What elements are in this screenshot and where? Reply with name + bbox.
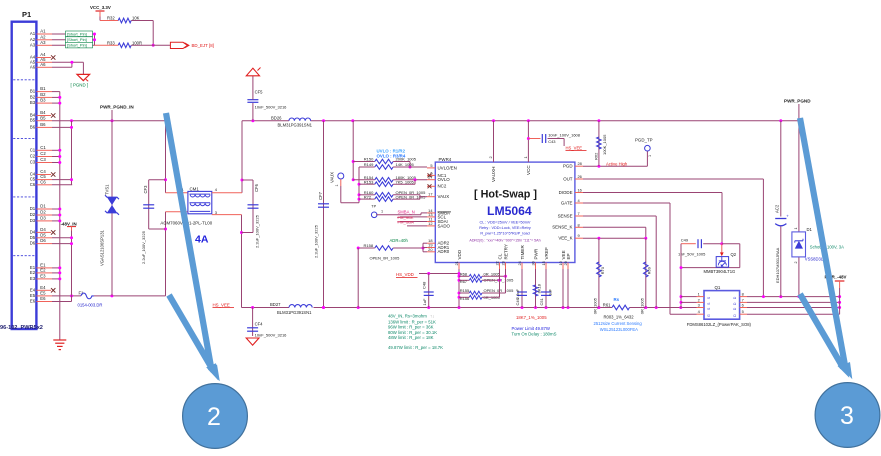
svg-text:0R_1005: 0R_1005	[639, 297, 644, 314]
svg-text:3: 3	[840, 402, 854, 430]
svg-text:E3: E3	[30, 276, 36, 281]
svg-text:LM5064: LM5064	[487, 204, 532, 218]
Q1 pin 6 stub	[740, 303, 747, 308]
LM5064 pin 11 SDAI	[427, 217, 448, 224]
test point SMBA	[371, 210, 427, 218]
net label PWR_PGND	[784, 99, 811, 121]
svg-text:TIMER: TIMER	[520, 245, 525, 260]
P1 pin D3	[30, 216, 60, 223]
resistor R155	[459, 288, 514, 295]
P1 pin A2	[30, 34, 95, 41]
capacitor C51 on VREF	[539, 269, 553, 308]
svg-text:C3: C3	[40, 157, 46, 162]
svg-text:TP: TP	[371, 204, 376, 208]
P1 pin B3	[30, 98, 60, 105]
svg-text:EDH107M301JRAA: EDH107M301JRAA	[775, 247, 780, 283]
svg-text:Q1: Q1	[715, 285, 721, 290]
svg-text:TVS1: TVS1	[104, 184, 109, 195]
svg-text:C1: C1	[40, 145, 46, 150]
svg-text:A2: A2	[40, 34, 46, 39]
svg-text:CF5: CF5	[255, 90, 264, 95]
svg-text:29: 29	[563, 261, 568, 265]
svg-text:PWR: PWR	[533, 248, 538, 259]
net label -48V_IN	[61, 221, 77, 230]
resistor R32	[107, 16, 155, 47]
svg-text:D6: D6	[40, 238, 46, 243]
Q1 pin 8 stub	[740, 292, 747, 297]
svg-text:1: 1	[794, 228, 798, 230]
P1 pin E2	[30, 268, 60, 275]
LM5064 pin 28 PGD	[563, 161, 583, 168]
LM5064 pin 15 VREF	[541, 247, 549, 269]
svg-text:GATE: GATE	[561, 200, 573, 205]
svg-text:D4: D4	[40, 227, 46, 232]
svg-text:10K: 10K	[132, 16, 140, 21]
capacitor CF5 with power flag	[246, 68, 287, 121]
P1 pin D5	[30, 232, 72, 239]
svg-text:2: 2	[207, 403, 221, 431]
svg-text:E4: E4	[30, 287, 36, 292]
svg-text:1: 1	[648, 155, 652, 157]
ferrite bead BD26	[271, 115, 313, 127]
svg-text:ADR0: ADR0	[438, 249, 450, 254]
svg-text:C49: C49	[681, 238, 689, 243]
svg-text:15: 15	[541, 261, 546, 265]
LM5064 pin 21 VDD	[454, 249, 462, 269]
LM5064 pin 7 SENSE	[558, 211, 583, 218]
svg-text:A3: A3	[40, 40, 46, 45]
svg-text:EP: EP	[566, 253, 571, 259]
svg-text:26: 26	[578, 174, 582, 179]
power flag VCC_3.3V	[90, 5, 118, 20]
svg-text:2.2uF: 2.2uF	[515, 288, 520, 299]
P1 pin E4	[30, 285, 55, 293]
ground PGND symbol	[77, 74, 90, 81]
wire HS_VEE rail	[242, 306, 697, 309]
svg-text:4A: 4A	[195, 234, 209, 246]
P1 pin C2	[30, 151, 60, 158]
svg-text:VEE_K: VEE_K	[558, 236, 572, 241]
svg-text:HS_VDD: HS_VDD	[396, 272, 414, 277]
svg-text:Rs: Rs	[614, 297, 620, 302]
wire EP pin net	[567, 269, 569, 308]
P1 pin B6	[30, 122, 72, 129]
wire A5-A6 join to PGND	[70, 61, 83, 74]
svg-text:OPEN_0R_1005: OPEN_0R_1005	[484, 288, 515, 293]
svg-text:R_pwr=1.25*10^5*Rs/P_load: R_pwr=1.25*10^5*Rs/P_load	[480, 231, 529, 235]
op-amp U? hot-swap controller LM5064 body	[435, 157, 575, 263]
svg-text:HS_VEE: HS_VEE	[566, 146, 583, 151]
svg-text:B2: B2	[30, 94, 36, 99]
wire SCL with PM_SCL label	[397, 215, 427, 220]
svg-text:D2: D2	[40, 210, 46, 215]
LM5064 pin 29 EP	[563, 253, 571, 269]
LM5064 pin 30 PWR	[530, 248, 538, 269]
svg-text:C43: C43	[548, 139, 556, 144]
svg-text:FDMS86102LZ_(PowerPAK_SO8): FDMS86102LZ_(PowerPAK_SO8)	[687, 322, 752, 327]
P1 pin C1	[30, 145, 60, 152]
svg-text:2: 2	[794, 262, 798, 264]
Q1 pin 5 stub	[740, 309, 747, 314]
net label HS_VEE	[213, 302, 235, 307]
resistor R62 pull	[593, 121, 607, 167]
svg-text:RETRY: RETRY	[503, 244, 508, 260]
svg-text:R61: R61	[603, 302, 611, 307]
svg-text:2.2uF_100V_3225: 2.2uF_100V_3225	[141, 230, 146, 264]
wire VEE_K net	[583, 237, 647, 240]
Q1 pin 3 stub	[697, 303, 705, 308]
wire ADR tie	[423, 243, 427, 252]
svg-text:R158: R158	[364, 243, 374, 248]
P1 pin A5	[30, 57, 83, 64]
svg-text:G: G	[707, 314, 711, 317]
svg-text:D: D	[733, 307, 737, 310]
capacitor C49	[678, 238, 723, 257]
Q1 pin 1 stub	[697, 292, 705, 297]
transistor Q1 body	[687, 285, 752, 327]
ferrite bead BD27	[270, 302, 312, 315]
LM5064 pin 22 CL	[494, 253, 502, 269]
short-pin labels on A1-A3	[66, 31, 93, 37]
svg-text:SMBA_N: SMBA_N	[398, 209, 415, 214]
svg-text:B5: B5	[40, 115, 46, 120]
svg-text:CF6: CF6	[254, 183, 259, 192]
svg-text:VAUXH: VAUXH	[491, 167, 496, 183]
capacitor C43	[528, 133, 580, 146]
svg-text:VDD: VDD	[457, 249, 462, 259]
svg-text:48W limit : R_per = 18K: 48W limit : R_per = 18K	[388, 335, 434, 340]
svg-text:R153: R153	[364, 179, 374, 184]
svg-text:9: 9	[578, 233, 580, 238]
svg-text:OVLO: OVLO	[438, 177, 451, 182]
wire SADO stub	[407, 225, 427, 227]
svg-text:P1: P1	[22, 10, 31, 19]
svg-text:10nF_100V_1608: 10nF_100V_1608	[548, 133, 581, 138]
wire CL pin net	[499, 269, 501, 297]
svg-text:BD26: BD26	[271, 115, 282, 120]
wire ladder tie vertical	[358, 167, 375, 203]
svg-text:18K7_1%_1005: 18K7_1%_1005	[516, 315, 547, 320]
svg-text:B5: B5	[30, 118, 36, 123]
capacitor CF7	[314, 121, 330, 309]
resistor R72	[364, 194, 427, 201]
svg-text:D3: D3	[30, 218, 36, 223]
LM5064 pin 23 RETRY	[500, 244, 508, 269]
resistor R150	[364, 157, 417, 169]
wire PGD net	[583, 151, 647, 168]
LM5064 pin 1 VCC	[523, 121, 531, 175]
resistor R153	[364, 179, 415, 186]
svg-text:VGAS12106SP131: VGAS12106SP131	[100, 229, 105, 266]
P1 pin B4	[30, 110, 55, 118]
resistor R68	[459, 272, 507, 279]
svg-text:8: 8	[742, 292, 744, 297]
P1 pin A4 (NC)	[30, 52, 55, 60]
svg-text:2: 2	[488, 156, 493, 158]
P1 pin A3	[30, 40, 95, 47]
svg-text:PWR_PGND_IN: PWR_PGND_IN	[100, 105, 134, 110]
svg-text:1: 1	[381, 210, 383, 214]
wire CM1 pin4 node	[212, 121, 253, 193]
svg-text:48V_IN, Rs=3mohm: 48V_IN, Rs=3mohm	[388, 313, 427, 318]
svg-text:OUT: OUT	[563, 176, 573, 181]
P1 pin C5	[30, 174, 72, 181]
Q1 pin 4 stub	[697, 309, 705, 314]
wire RETRY pin net	[505, 269, 507, 293]
svg-text:PGD: PGD	[563, 164, 573, 169]
wire VEE pin net	[562, 269, 564, 308]
svg-text:14K_1005: 14K_1005	[396, 162, 415, 167]
svg-text:PWR_PGND: PWR_PGND	[784, 99, 811, 104]
LM5064 pin 16 DIODE	[559, 188, 583, 195]
svg-text:AC2: AC2	[774, 204, 779, 213]
svg-text:D1: D1	[807, 227, 813, 232]
P1 pin E1	[30, 263, 60, 270]
LM5064 pin 5 UVLO/EN	[427, 163, 457, 170]
svg-text:3: 3	[698, 303, 700, 308]
svg-text:21: 21	[454, 261, 459, 265]
LM5064 pin 26 OUT	[563, 174, 583, 181]
ground symbol at PGND bus bottom	[53, 340, 66, 350]
svg-text:2512size Current Sensing: 2512size Current Sensing	[594, 321, 643, 326]
svg-text:Active High: Active High	[606, 162, 628, 167]
svg-text:10nF_500V_3216: 10nF_500V_3216	[255, 105, 288, 110]
svg-text:[ PGND ]: [ PGND ]	[71, 83, 89, 88]
svg-text:R150: R150	[364, 157, 374, 162]
resistor R33	[95, 41, 171, 48]
svg-text:VAUX: VAUX	[330, 172, 335, 183]
P1 pin E5 / wire to fuse F1	[30, 291, 81, 298]
svg-text:0R_1005: 0R_1005	[593, 297, 598, 314]
svg-text:[ Hot-Swap ]: [ Hot-Swap ]	[474, 189, 537, 201]
bus -48V_IN lower segment (D5..E6)	[70, 231, 73, 302]
wire OUT net to drain	[583, 179, 763, 297]
svg-text:A6: A6	[40, 62, 46, 67]
svg-text:BLM31PG391SN1: BLM31PG391SN1	[278, 123, 313, 128]
wire SENSE_K net	[583, 227, 646, 238]
svg-text:[Short_Pin]: [Short_Pin]	[67, 31, 87, 36]
svg-text:ADR2(0) : "xxx"=40h/ "000"=15h: ADR2(0) : "xxx"=40h/ "000"=15h/ "111"= 5…	[469, 238, 540, 242]
svg-text:VAUX: VAUX	[438, 194, 450, 199]
svg-text:0154-003.DR: 0154-003.DR	[78, 302, 103, 307]
svg-text:R68: R68	[460, 272, 468, 277]
svg-text:E6: E6	[40, 296, 46, 301]
svg-text:2.2uF_100V_3225: 2.2uF_100V_3225	[314, 224, 319, 258]
svg-text:49.87W limit : R_per = 18.7K: 49.87W limit : R_per = 18.7K	[388, 345, 443, 350]
LM5064 pin 6 NC1	[427, 170, 447, 177]
svg-text:D: D	[733, 302, 737, 305]
P1 pin D1	[30, 204, 60, 211]
callout circle 3	[815, 383, 880, 448]
capacitor CF6	[248, 180, 260, 248]
svg-text:+: +	[786, 213, 789, 218]
svg-text:E5: E5	[30, 293, 36, 298]
wire SENSE net	[583, 216, 656, 308]
svg-text:0R_1005: 0R_1005	[484, 272, 501, 277]
LM5064 pin 10 VEE	[558, 250, 566, 269]
svg-text:SADO: SADO	[438, 223, 451, 228]
svg-text:B6: B6	[30, 124, 36, 129]
TVS diode TVS1	[100, 121, 120, 296]
wire CM1 pin2 node	[149, 212, 188, 296]
capacitor CF3	[141, 180, 154, 264]
LM5064 pin 2 VAUXH	[488, 121, 496, 182]
svg-text:VREF: VREF	[544, 247, 549, 259]
diode D1 schottky	[792, 121, 844, 297]
svg-text:ADR=40h: ADR=40h	[390, 238, 409, 243]
callout arrow to circle 2 (long)	[166, 113, 212, 370]
fuse F1	[78, 290, 103, 307]
svg-text:A2: A2	[30, 37, 36, 42]
svg-text:Q2: Q2	[731, 252, 737, 257]
svg-text:CF4: CF4	[255, 322, 264, 327]
svg-text:Turn On Delay : 180mS: Turn On Delay : 180mS	[512, 331, 557, 336]
svg-text:VCC: VCC	[526, 165, 531, 175]
svg-text:C2: C2	[30, 154, 36, 159]
svg-text:SENSE_K: SENSE_K	[552, 225, 572, 230]
svg-text:CM1: CM1	[190, 186, 200, 191]
P1 pin B2	[30, 92, 60, 99]
resistor 18K7 on PWR	[533, 269, 541, 308]
wire fuse to CM1 pin2 node	[94, 294, 166, 297]
svg-text:1uF: 1uF	[548, 288, 553, 295]
svg-text:6: 6	[742, 303, 744, 308]
svg-text:Schottky 100V, 3A: Schottky 100V, 3A	[810, 244, 844, 249]
LM5064 pin 14 SMBA	[427, 208, 450, 215]
wire Q1 source tie	[681, 297, 697, 303]
svg-text:MMBT3904LT1G: MMBT3904LT1G	[704, 269, 736, 274]
svg-text:A6: A6	[30, 64, 36, 69]
svg-text:C2: C2	[40, 151, 46, 156]
wire SDAI with PM_SDA label	[397, 220, 427, 225]
wire Q2 cell frame	[680, 244, 740, 309]
svg-text:2.2uF_100V_3225: 2.2uF_100V_3225	[255, 214, 260, 248]
svg-text:HS_VEE: HS_VEE	[213, 302, 230, 307]
svg-text:D5: D5	[30, 235, 36, 240]
callout circle 2	[183, 384, 248, 449]
svg-text:C3: C3	[30, 160, 36, 165]
svg-text:R69: R69	[647, 266, 652, 274]
svg-text:D1: D1	[40, 204, 46, 209]
callout arrow to circle 2 (short)	[169, 295, 214, 371]
capacitor AC2 electrolytic	[774, 121, 789, 297]
svg-text:R67: R67	[460, 279, 468, 284]
svg-text:A1: A1	[40, 29, 46, 34]
svg-text:E2: E2	[40, 268, 46, 273]
svg-text:DIODE: DIODE	[559, 190, 573, 195]
svg-text:R155: R155	[460, 288, 470, 293]
svg-text:PGD_TP: PGD_TP	[635, 137, 653, 142]
svg-text:R62: R62	[593, 152, 598, 160]
wire GATE net	[583, 203, 697, 314]
resistor R69	[639, 238, 651, 314]
svg-text:[Short_Pin]: [Short_Pin]	[67, 43, 87, 48]
svg-text:23: 23	[500, 261, 505, 265]
P1 pin A6	[30, 62, 72, 69]
svg-text:OPEN_0R_1005: OPEN_0R_1005	[370, 255, 401, 260]
resistor R149	[364, 162, 427, 169]
svg-text:CL: CL	[497, 253, 502, 259]
net label PWR_PGND_IN	[100, 105, 134, 121]
bus -48V_IN upper segment (B5..C6)	[70, 121, 73, 185]
net label PWR_-48V with power bar	[825, 274, 847, 314]
bus PGND vertical (B1..E3) with ground	[58, 92, 61, 340]
wire top rail PGND (filtered)	[242, 119, 800, 122]
svg-text:B6: B6	[40, 122, 46, 127]
svg-text:↑↓: ↑↓	[430, 313, 434, 318]
svg-text:R33: R33	[107, 41, 115, 46]
svg-text:D1: D1	[30, 206, 36, 211]
LM5064 pin 27 OVLO	[427, 175, 450, 182]
svg-text:12: 12	[428, 221, 432, 226]
svg-text:C48: C48	[422, 281, 427, 289]
resistor R67	[459, 278, 514, 284]
svg-text:D5: D5	[40, 232, 46, 237]
svg-text:22: 22	[494, 261, 499, 265]
resistor R158	[357, 243, 425, 307]
wire A1-A3 tie vertical	[93, 33, 96, 46]
Q1 pin 7 stub	[740, 297, 747, 302]
P1 pin D2	[30, 210, 60, 217]
transistor Q2	[704, 244, 737, 274]
callout arrow to circle 3 (short)	[800, 294, 843, 368]
LM5064 pin 17 VAUX	[427, 192, 449, 199]
svg-text:B1: B1	[30, 89, 36, 94]
P1 pin B1	[30, 86, 60, 93]
svg-text:D3: D3	[40, 216, 46, 221]
svg-text:B3: B3	[40, 98, 46, 103]
svg-text:R72: R72	[364, 194, 372, 199]
svg-text:R156: R156	[460, 296, 470, 301]
capacitor C48	[422, 274, 434, 308]
svg-text:1: 1	[698, 292, 700, 297]
svg-text:UVLO : R1/R2: UVLO : R1/R2	[377, 148, 406, 153]
P1 pin C3	[30, 157, 60, 164]
net label HS_VDD	[396, 272, 459, 277]
svg-text:D: D	[733, 314, 737, 317]
svg-text:R32: R32	[107, 16, 115, 21]
LM5064 pin 9 VEE_K	[558, 233, 583, 240]
svg-text:[Short_Pin]: [Short_Pin]	[67, 37, 87, 42]
P1 pin C6	[30, 179, 72, 186]
resistor R70	[593, 238, 605, 314]
svg-text:SENSE: SENSE	[558, 213, 573, 218]
test point PGD_TP	[635, 137, 653, 157]
svg-text:E2: E2	[30, 270, 36, 275]
svg-text:CL : VDD=25mV / VEE=50mV: CL : VDD=25mV / VEE=50mV	[480, 220, 531, 224]
svg-text:1: 1	[523, 156, 528, 158]
callout arrow to circle 3 (long)	[800, 118, 846, 368]
Q1 pin 2 stub	[697, 297, 705, 302]
LM5064 pin 4 GATE	[561, 198, 583, 205]
P1 pin E6	[30, 296, 72, 303]
P1 pin E3	[30, 274, 60, 281]
svg-text:D4: D4	[30, 229, 36, 234]
P1 pin B5 / net PWR_PGND_IN rail to CM1	[30, 115, 166, 122]
svg-text:NC2: NC2	[438, 184, 447, 189]
svg-text:8: 8	[578, 222, 580, 227]
svg-text:8K18: 8K18	[537, 283, 542, 293]
P1 pin A1	[30, 29, 95, 36]
svg-text:C1: C1	[30, 147, 36, 152]
wire VDD sense feed	[352, 121, 375, 182]
svg-text:UVLO/EN: UVLO/EN	[438, 165, 457, 170]
svg-text:100R: 100R	[132, 41, 142, 46]
svg-text:E4: E4	[40, 285, 46, 290]
svg-text:R149: R149	[364, 162, 374, 167]
svg-text:7: 7	[578, 211, 580, 216]
wire CM1 pin3 node / HS_VEE rail start	[212, 215, 253, 308]
